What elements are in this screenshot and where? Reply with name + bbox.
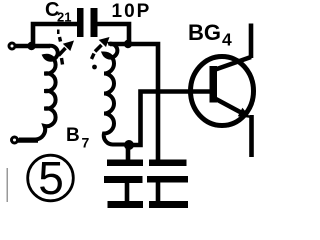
wire [110,44,158,160]
svg-text:BG: BG [188,20,221,45]
svg-text:21: 21 [57,10,71,25]
capacitor C21 plates [77,8,84,37]
transistor BG4 [191,57,254,126]
wire [18,138,38,143]
svg-text:7: 7 [82,135,90,151]
terminal (input bottom) [12,137,18,143]
svg-text:4: 4 [222,30,232,50]
junction dot [124,140,134,150]
junction dot [124,40,132,48]
ground (left) [108,201,144,208]
ground (right) [149,201,188,208]
wire [16,44,50,49]
wire (collector) [249,24,254,59]
wire (base lead) [126,92,210,146]
svg-text:B: B [66,125,80,146]
figure number 5 [28,155,74,201]
transformer B7 primary winding [19,46,58,140]
adjustable core arrow (left) [59,48,66,56]
capacitor (right bypass) [149,160,187,167]
ink speckle [57,30,60,35]
svg-text:10P: 10P [112,1,152,22]
capacitor (left bypass) [126,145,131,160]
wire (emitter) [249,115,254,157]
junction dot [27,42,35,50]
adjustable core arrow (right) [95,45,102,52]
wire [33,24,77,48]
wire [98,24,130,42]
transformer B7 secondary winding [104,44,131,145]
scan artifact (page edge) [7,168,9,202]
terminal (input top) [9,43,15,49]
svg-text:5: 5 [38,152,64,204]
